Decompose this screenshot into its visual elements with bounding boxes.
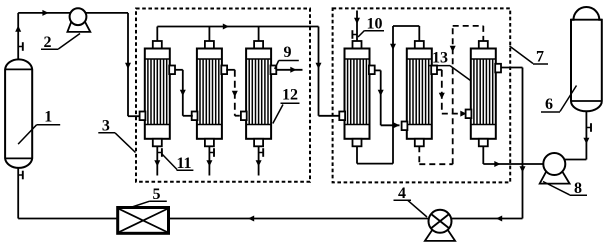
svg-text:1: 1	[44, 109, 52, 126]
pump 8 (circulation pump)	[540, 153, 570, 184]
wire module B3 bottom outlet to pump 8 (arrow right, junction arrow down)	[483, 146, 543, 172]
wire box3 top header (module tops, right arrow)	[157, 24, 318, 42]
svg-text:4: 4	[398, 185, 406, 202]
wire module B1 bottom to module B2 top header	[357, 26, 419, 164]
membrane module B3	[466, 41, 501, 146]
svg-text:12: 12	[282, 87, 298, 104]
dashed enclosure (second membrane unit)	[333, 8, 511, 182]
pump 4 (on return line)	[425, 210, 455, 241]
svg-text:7: 7	[536, 49, 544, 66]
valve on vessel 6 outlet	[586, 123, 591, 132]
valve on vessel 1 outlet riser	[18, 42, 23, 51]
svg-text:11: 11	[176, 155, 191, 172]
wire 7 module B3 right nozzle down to bottom return line	[501, 68, 523, 219]
label 11	[162, 154, 194, 173]
dashed enclosure 3 (first membrane unit)	[136, 9, 310, 182]
label 2	[41, 34, 80, 51]
wire bottom return line (arrows left)	[18, 168, 522, 222]
membrane module B2	[402, 41, 437, 146]
label 12	[273, 87, 300, 124]
wire unit3 outlet downcomer to unit4 first module (down arrow)	[316, 27, 341, 116]
wire pump 2 discharge into membrane unit 3 feed nozzle	[86, 13, 141, 116]
wire permeate outlet 9 (arrow right)	[276, 67, 303, 73]
svg-text:10: 10	[367, 16, 383, 33]
vessel 1 (feed tank)	[5, 59, 32, 168]
membrane module A3 (12)	[241, 41, 276, 146]
svg-text:2: 2	[44, 34, 52, 51]
label 10	[358, 16, 384, 38]
label 4	[394, 185, 428, 217]
membrane module B1	[339, 41, 374, 146]
wire top inlet into module B1	[354, 11, 360, 42]
label 9	[275, 44, 299, 69]
drain valve under module A2	[206, 146, 214, 175]
label 8	[543, 180, 587, 197]
drain valve under module A3	[256, 146, 264, 175]
valve on vessel 1 bottom line	[18, 171, 23, 180]
wire module B2 right nozzle to module B3 left nozzle (dashed)	[436, 70, 466, 117]
heat exchanger 5	[118, 208, 169, 234]
wire vessel 6 bottom outlet to pump 8 (down arrow)	[564, 111, 589, 159]
wire module B1 right nozzle to module B2 left nozzle	[376, 70, 400, 128]
svg-text:13: 13	[432, 50, 448, 67]
label 3	[98, 118, 135, 153]
wire vessel1 top outlet to pump 2 (with up and right arrows)	[15, 10, 70, 60]
label 1	[18, 109, 60, 145]
valve 10 on module B1 top inlet	[352, 30, 357, 39]
drain valve under module A1 (11)	[154, 146, 162, 175]
membrane module A1	[140, 41, 175, 146]
svg-text:6: 6	[545, 96, 553, 113]
svg-text:9: 9	[284, 44, 292, 61]
wire module A2 right nozzle to module A3 left nozzle (dashed)	[226, 70, 240, 116]
label 5	[131, 186, 167, 208]
pump 2 (centrifugal pump)	[67, 8, 90, 32]
label 6	[541, 86, 577, 114]
vessel 6 (product tank)	[571, 7, 602, 111]
wire module A1 right nozzle to module A2 left nozzle	[175, 70, 193, 116]
label 7	[510, 46, 549, 66]
membrane module A2	[192, 41, 227, 146]
svg-text:8: 8	[574, 180, 582, 197]
label 13	[430, 50, 471, 81]
wire phantom loop module B2 bottom to module B3 top (dashed, 13)	[419, 26, 483, 164]
